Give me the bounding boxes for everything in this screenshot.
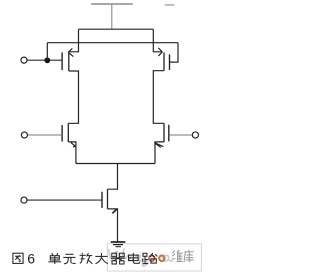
caption 放 [80,253,93,264]
junction dot on gate wire [44,57,50,63]
watermark char 库 [184,250,194,263]
wire M1 source [69,29,79,52]
transistor M5 (tail NMOS) [102,189,117,213]
wire M2 gate lead to bus [170,43,179,62]
caption 单 [48,253,61,264]
caption 大 [95,253,108,264]
ground [111,242,126,247]
wire M5 drain [108,164,118,190]
wire M2 source [153,29,162,52]
wire M3 source [68,142,76,164]
wire M1 drain [68,71,78,123]
terminal input 1 [21,57,27,63]
terminal input 2 [21,132,27,138]
transistor M2 (top-right PMOS) [158,48,169,71]
watermark script We e [109,249,174,267]
wire VDD rail (node A) [79,28,154,30]
power VDD symbol [91,4,133,29]
wire M2 drain [153,71,164,124]
terminal input 3 [192,132,198,138]
transistor M3 (mid-left NMOS) [62,123,76,147]
wire tail node [76,163,155,165]
wire M5 gate lead [27,199,102,201]
transistor M4 (mid-right NMOS) [154,123,168,147]
wire gate bus (node B) [47,42,178,44]
terminal input 4 [21,197,27,203]
watermark fragment top right [165,4,175,6]
caption 图 [13,253,23,263]
wire M4 gate lead [169,134,193,136]
watermark orange o 2 [159,256,164,261]
watermark orange o [149,256,154,261]
watermark char 维 [172,250,183,262]
watermark box bottom [107,244,201,271]
caption 电 [129,253,140,264]
wire M3 gate lead [27,134,62,136]
caption 元 [63,254,75,263]
svg-text:6: 6 [27,251,35,267]
caption 路 [143,253,158,264]
caption 器 [111,253,126,264]
wire M1 gate lead [27,59,62,61]
wire M5 source [108,209,118,242]
wire dot to gate bus [46,43,48,61]
transistor M1 (top-left PMOS) [62,48,73,71]
wire M4 source [155,142,164,164]
